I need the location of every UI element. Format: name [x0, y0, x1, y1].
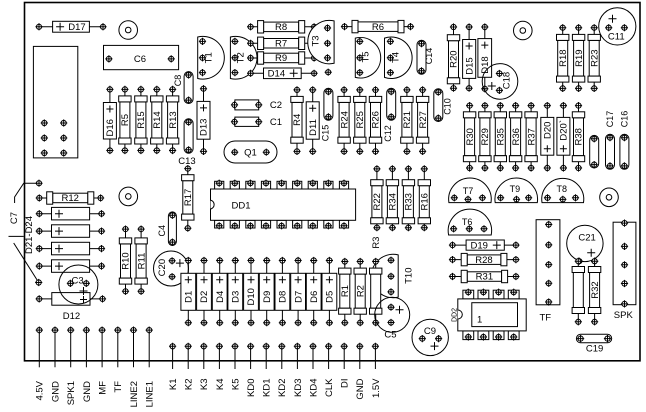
svg-text:D11: D11 — [308, 119, 319, 136]
IC DD1 — [211, 180, 356, 230]
svg-text:R26: R26 — [371, 111, 382, 128]
mounting hole — [119, 187, 138, 206]
resistor R23 — [588, 24, 600, 92]
diode D11 — [306, 86, 319, 155]
svg-text:D5: D5 — [325, 291, 336, 303]
svg-text:R23: R23 — [589, 49, 600, 66]
svg-text:T1: T1 — [204, 52, 215, 63]
svg-text:C1: C1 — [270, 117, 282, 128]
svg-text:D17: D17 — [68, 22, 85, 33]
IC DD2 — [452, 289, 527, 341]
crystal Q1 — [224, 141, 277, 163]
svg-text:C12: C12 — [383, 125, 393, 142]
resistor R33 — [402, 165, 414, 231]
svg-text:R19: R19 — [574, 49, 585, 66]
svg-text:R7: R7 — [275, 39, 287, 50]
diode D24 — [36, 260, 105, 273]
svg-text:SPK1: SPK1 — [66, 381, 77, 405]
svg-text:D14: D14 — [268, 69, 285, 80]
capacitor C19 — [576, 334, 611, 354]
svg-text:SPK: SPK — [614, 310, 634, 321]
svg-text:GND: GND — [82, 381, 93, 402]
diode D18 — [478, 23, 492, 92]
capacitor unlabeled left of C17 — [590, 135, 599, 168]
resistor R9 — [247, 52, 318, 64]
svg-text:R24: R24 — [339, 111, 350, 128]
resistor R1 — [339, 258, 351, 326]
resistor R3 — [370, 258, 382, 326]
resistor R19 — [572, 24, 584, 92]
svg-text:C21: C21 — [578, 233, 595, 244]
pin CLK — [324, 343, 335, 397]
svg-text:R25: R25 — [355, 111, 366, 128]
capacitor C6 — [104, 45, 179, 69]
svg-text:R18: R18 — [558, 49, 569, 66]
svg-text:R1: R1 — [340, 285, 351, 297]
pin LINE1 — [145, 327, 156, 408]
pin K5 — [230, 343, 241, 390]
resistor R14 — [151, 86, 163, 154]
resistor R2 — [354, 258, 366, 326]
svg-text:DD2: DD2 — [452, 308, 459, 322]
svg-text:KD0: KD0 — [246, 379, 257, 397]
pin GND — [50, 327, 61, 403]
svg-text:C17: C17 — [605, 111, 615, 128]
resistor R15 — [135, 86, 147, 154]
diode D12 — [36, 293, 107, 322]
svg-text:K1: K1 — [168, 379, 179, 391]
svg-text:R14: R14 — [152, 111, 163, 128]
svg-text:GND: GND — [355, 378, 366, 399]
svg-text:K4: K4 — [215, 379, 226, 391]
pin DI — [340, 343, 351, 388]
svg-text:T9: T9 — [510, 184, 521, 194]
svg-text:D19: D19 — [470, 240, 487, 251]
svg-text:C20: C20 — [157, 259, 168, 276]
diode D22 — [36, 225, 105, 238]
svg-text:R5: R5 — [120, 114, 131, 126]
resistor R8 — [247, 21, 318, 33]
svg-text:R21: R21 — [402, 111, 413, 128]
resistor R26 — [369, 86, 381, 155]
capacitor C16 — [620, 111, 630, 170]
transistor T2 — [230, 36, 257, 79]
svg-text:T7: T7 — [463, 186, 474, 196]
svg-text:D7: D7 — [293, 291, 304, 303]
svg-text:D1: D1 — [184, 291, 195, 303]
svg-text:R4: R4 — [292, 114, 303, 126]
pin LINE2 — [129, 327, 140, 408]
pin TF — [113, 327, 124, 393]
resistor R22 — [371, 165, 383, 231]
capacitor C12 — [383, 88, 396, 142]
pin KD4 — [308, 343, 319, 397]
resistor R18 — [557, 24, 569, 92]
transistor T6 — [448, 209, 491, 235]
resistor R30 — [463, 102, 475, 172]
svg-text:T3: T3 — [311, 35, 322, 46]
svg-text:R35: R35 — [496, 128, 507, 145]
resistor R32 — [588, 258, 600, 326]
svg-text:D8: D8 — [278, 291, 289, 303]
capacitor C2 — [231, 100, 282, 111]
capacitor C4 — [157, 212, 176, 246]
pin K1 — [168, 343, 179, 390]
capacitor C11 — [599, 8, 636, 45]
capacitor C5 — [375, 297, 410, 340]
diode D4 — [212, 257, 227, 326]
resistor R25 — [354, 86, 366, 155]
svg-text:C6: C6 — [134, 54, 146, 65]
diode D1 — [181, 257, 196, 326]
svg-text:K3: K3 — [199, 379, 210, 391]
svg-text:LINE2: LINE2 — [129, 381, 140, 407]
svg-text:T6: T6 — [462, 217, 473, 227]
svg-text:KD2: KD2 — [277, 379, 288, 397]
resistor R28 — [449, 253, 520, 265]
svg-text:D3: D3 — [231, 291, 242, 303]
svg-text:D4: D4 — [215, 291, 226, 303]
mounting hole — [119, 21, 138, 40]
svg-text:C13: C13 — [178, 156, 195, 167]
resistor R12 — [36, 192, 105, 204]
pin K3 — [199, 343, 210, 390]
svg-text:T10: T10 — [404, 268, 415, 284]
relay connector — [33, 46, 77, 157]
capacitor C9 — [412, 319, 448, 355]
svg-text:R38: R38 — [574, 128, 585, 145]
capacitor C8 — [173, 71, 193, 103]
svg-text:C16: C16 — [620, 111, 630, 128]
svg-text:C4: C4 — [157, 225, 167, 237]
resistor R13 — [166, 86, 178, 154]
resistor R21 — [401, 86, 413, 155]
pin KD3 — [293, 343, 304, 397]
svg-text:D6: D6 — [309, 291, 320, 303]
svg-text:D12: D12 — [63, 311, 80, 322]
svg-text:D9: D9 — [262, 291, 273, 303]
pin KD1 — [262, 343, 273, 397]
mounting hole — [600, 188, 619, 207]
resistor R29 — [479, 102, 491, 172]
pin SPK1 — [66, 327, 77, 406]
mounting hole — [514, 21, 533, 40]
svg-text:CLK: CLK — [324, 378, 335, 397]
transistor T1 — [198, 36, 225, 79]
connector SPK — [613, 220, 636, 322]
diode D17 — [35, 21, 106, 33]
svg-text:DI: DI — [340, 379, 351, 389]
diode D5 — [322, 257, 337, 326]
svg-text:C10: C10 — [443, 98, 453, 115]
resistor unlabeled left of R32 — [572, 258, 584, 326]
capacitor C15 — [320, 88, 333, 141]
diode D20` — [557, 102, 570, 172]
svg-text:R11: R11 — [136, 253, 147, 270]
svg-text:Q1: Q1 — [244, 147, 257, 158]
resistor R17 — [182, 165, 194, 232]
svg-text:TF: TF — [539, 313, 551, 324]
svg-text:R20: R20 — [449, 50, 460, 67]
svg-text:R9: R9 — [275, 53, 287, 64]
pin 4.5V — [35, 327, 46, 401]
svg-text:C11: C11 — [608, 32, 625, 43]
svg-text:C15: C15 — [320, 125, 330, 142]
resistor R7 — [247, 37, 318, 49]
svg-text:MF: MF — [98, 381, 109, 395]
svg-text:R3: R3 — [371, 237, 382, 249]
resistor R37 — [525, 102, 537, 172]
capacitor C17 — [605, 111, 615, 170]
diode D7 — [291, 257, 306, 326]
capacitor C21 — [567, 225, 603, 265]
svg-text:C7: C7 — [9, 212, 20, 224]
svg-text:C18: C18 — [502, 72, 513, 89]
svg-text:KD1: KD1 — [262, 379, 273, 397]
svg-text:GND: GND — [50, 381, 61, 402]
transistor T4 — [385, 37, 413, 79]
node C7 pad top — [35, 180, 42, 187]
pin GND — [82, 327, 93, 403]
pin MF — [98, 327, 109, 395]
transistor T8 — [542, 178, 584, 203]
svg-text:D2: D2 — [199, 291, 210, 303]
svg-text:D20`: D20` — [559, 120, 570, 141]
svg-text:C5: C5 — [384, 330, 396, 341]
resistor R20 — [447, 23, 459, 91]
diode D10 — [244, 257, 259, 326]
resistor R38 — [572, 102, 584, 172]
transistor T7 — [449, 178, 492, 203]
svg-text:1.5V: 1.5V — [371, 378, 382, 398]
svg-text:R29: R29 — [480, 128, 491, 145]
node pad — [35, 279, 42, 286]
diode D8 — [275, 257, 290, 326]
pin GND — [355, 343, 366, 400]
transistor T5 — [355, 37, 380, 78]
svg-text:T5: T5 — [361, 51, 372, 62]
resistor R34 — [386, 165, 398, 231]
svg-text:C9: C9 — [424, 326, 436, 337]
transistor T9 — [495, 178, 538, 203]
diode D14 — [247, 68, 318, 80]
svg-text:R10: R10 — [121, 252, 132, 269]
transistor T10 — [371, 254, 414, 297]
svg-text:C2: C2 — [270, 100, 282, 111]
capacitor C20 — [154, 251, 189, 286]
resistor R27 — [416, 86, 428, 155]
capacitor C14 — [417, 40, 434, 74]
svg-text:R8: R8 — [275, 22, 287, 33]
resistor R35 — [494, 102, 506, 172]
pin K2 — [184, 343, 195, 390]
wire C7 leader top — [15, 183, 39, 203]
capacitor C18 — [482, 64, 518, 100]
svg-text:R28: R28 — [475, 255, 492, 266]
capacitor C10 — [434, 89, 453, 122]
svg-text:D15: D15 — [464, 57, 475, 74]
resistor R24 — [338, 86, 350, 155]
pin 1.5V — [371, 343, 382, 398]
diode D13 — [197, 85, 210, 155]
svg-text:R36: R36 — [511, 128, 522, 145]
diode D9 — [259, 257, 274, 326]
resistor R31 — [449, 270, 520, 282]
diode D15 — [463, 23, 476, 91]
svg-text:T2: T2 — [236, 52, 247, 63]
resistor R11 — [135, 226, 147, 295]
diode D16 — [103, 86, 116, 154]
svg-text:R2: R2 — [355, 285, 366, 297]
svg-text:R12: R12 — [61, 193, 78, 204]
svg-text:R37: R37 — [526, 128, 537, 145]
diode D23 — [36, 242, 105, 255]
svg-text:R22: R22 — [372, 193, 383, 210]
svg-text:KD4: KD4 — [308, 379, 319, 397]
svg-text:R33: R33 — [404, 193, 415, 210]
resistor R10 — [119, 226, 131, 295]
svg-text:R16: R16 — [420, 193, 431, 210]
svg-text:R13: R13 — [168, 111, 179, 128]
diode D19 — [449, 240, 520, 251]
diode D2 — [197, 257, 212, 326]
svg-text:C8: C8 — [173, 75, 183, 87]
resistor R4 — [291, 86, 303, 155]
svg-text:R17: R17 — [183, 189, 194, 206]
svg-text:C3: C3 — [72, 276, 84, 287]
svg-text:1: 1 — [477, 315, 482, 326]
resistor R16 — [418, 165, 430, 231]
capacitor C3 — [59, 265, 98, 304]
svg-text:4.5V: 4.5V — [35, 380, 46, 400]
capacitor C13 — [184, 119, 193, 154]
diode D20 — [541, 102, 554, 172]
svg-text:R6: R6 — [372, 22, 384, 33]
svg-text:D10: D10 — [246, 288, 257, 305]
diode D21 — [36, 207, 105, 220]
resistor R5 — [119, 86, 131, 154]
svg-text:R27: R27 — [418, 111, 429, 128]
svg-text:TF: TF — [113, 381, 124, 393]
diode D6 — [306, 257, 321, 326]
svg-text:R15: R15 — [136, 111, 147, 128]
wire C7 leader bottom — [9, 236, 39, 282]
pin KD0 — [246, 343, 257, 397]
pin KD2 — [277, 343, 288, 397]
svg-text:D21-D24: D21-D24 — [24, 216, 35, 254]
pin K4 — [215, 343, 226, 390]
svg-text:R31: R31 — [476, 272, 493, 283]
svg-text:K5: K5 — [230, 379, 241, 391]
svg-text:D16: D16 — [105, 119, 116, 136]
svg-text:C14: C14 — [424, 48, 434, 65]
svg-text:R32: R32 — [590, 281, 601, 298]
diode D3 — [228, 257, 243, 326]
svg-text:D13: D13 — [199, 119, 210, 136]
svg-text:T4: T4 — [391, 52, 402, 63]
transistor T3 — [308, 20, 334, 63]
svg-text:LINE1: LINE1 — [145, 381, 156, 407]
resistor R6 — [341, 20, 414, 32]
svg-text:R34: R34 — [388, 193, 399, 210]
svg-text:T8: T8 — [557, 184, 568, 194]
svg-text:K2: K2 — [184, 379, 195, 391]
connector TF — [536, 220, 560, 324]
resistor R36 — [509, 102, 521, 172]
svg-text:DD1: DD1 — [231, 201, 250, 212]
via pad — [325, 69, 332, 76]
svg-text:R30: R30 — [465, 128, 476, 145]
capacitor C1 — [231, 117, 282, 128]
svg-text:C19: C19 — [586, 344, 603, 355]
svg-text:KD3: KD3 — [293, 379, 304, 397]
svg-text:D20: D20 — [543, 122, 554, 139]
